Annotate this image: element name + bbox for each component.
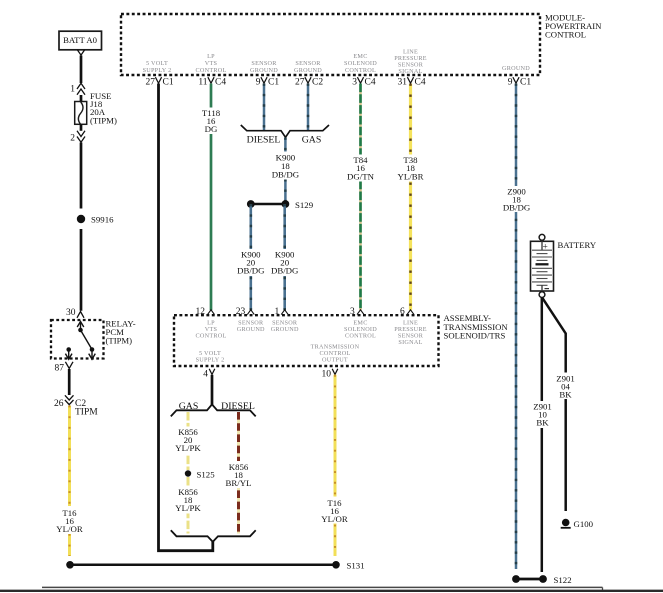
svg-text:C1: C1 bbox=[268, 78, 279, 88]
svg-text:YL/OR: YL/OR bbox=[321, 514, 348, 524]
page frame line upper bbox=[42, 587, 603, 590]
splice S129 bbox=[247, 200, 314, 210]
svg-text:DB/DG: DB/DG bbox=[271, 266, 299, 276]
pin 11 C4 (LP VTS CONTROL) of PCM bbox=[196, 53, 227, 88]
label MODULE-POWERTRAIN CONTROL bbox=[545, 13, 602, 40]
svg-text:11: 11 bbox=[198, 78, 207, 88]
splice S122 bbox=[512, 575, 571, 585]
svg-text:GROUND: GROUND bbox=[250, 67, 278, 74]
svg-text:+: + bbox=[543, 243, 548, 253]
ground G100 bbox=[561, 519, 594, 529]
svg-text:CONTROL: CONTROL bbox=[545, 30, 586, 40]
TRS pin 1 (SENSOR GROUND) bbox=[271, 307, 299, 333]
svg-text:9: 9 bbox=[508, 78, 513, 88]
svg-text:DB/DG: DB/DG bbox=[272, 170, 300, 180]
svg-text:SIGNAL: SIGNAL bbox=[398, 68, 422, 75]
svg-text:26: 26 bbox=[54, 399, 64, 409]
svg-text:GROUND: GROUND bbox=[271, 326, 299, 333]
svg-text:GROUND: GROUND bbox=[237, 326, 265, 333]
svg-text:1: 1 bbox=[274, 307, 279, 317]
wire K856 18 YL/PK (GAS, lower) bbox=[175, 477, 202, 534]
svg-text:LP: LP bbox=[207, 53, 215, 60]
pin 31 C4 (LINE PRESSURE SENSOR SIGNAL) of PCM bbox=[394, 49, 427, 88]
pin 9 C1 (GROUND) of PCM bbox=[502, 65, 531, 88]
wire T118 16 DG (PCM 11 C4 to TRS pin 12) bbox=[199, 84, 223, 311]
svg-text:DG: DG bbox=[205, 124, 218, 134]
TRS pin 23 (SENSOR GROUND) bbox=[236, 307, 265, 333]
svg-text:SENSOR: SENSOR bbox=[295, 60, 321, 67]
relay label RELAY-PCM (TIPM) bbox=[106, 319, 136, 346]
svg-text:5 VOLT: 5 VOLT bbox=[146, 60, 168, 67]
svg-text:3: 3 bbox=[352, 78, 357, 88]
svg-text:DB/DG: DB/DG bbox=[237, 266, 265, 276]
battery feed box BATT A0 bbox=[59, 31, 102, 55]
svg-text:(TIPM): (TIPM) bbox=[106, 336, 133, 346]
svg-text:OUTPUT: OUTPUT bbox=[322, 357, 348, 364]
TRS pin 12 (LP VTS CONTROL) bbox=[196, 307, 227, 340]
svg-text:GROUND: GROUND bbox=[294, 67, 322, 74]
svg-text:C4: C4 bbox=[215, 78, 226, 88]
svg-text:SIGNAL: SIGNAL bbox=[398, 339, 422, 346]
svg-text:31: 31 bbox=[398, 78, 408, 88]
svg-text:C4: C4 bbox=[415, 78, 426, 88]
svg-text:SOLENOID/TRS: SOLENOID/TRS bbox=[444, 330, 506, 340]
svg-text:CONTROL: CONTROL bbox=[345, 67, 376, 74]
wire relay 87 to connector 26 C2 bbox=[68, 369, 71, 395]
brace split GAS/DIESEL (5 volt supply) bbox=[171, 401, 256, 416]
svg-text:BR/YL: BR/YL bbox=[226, 478, 252, 488]
page frame line lower bbox=[0, 590, 663, 592]
svg-text:GROUND: GROUND bbox=[502, 65, 530, 72]
wire T84 16 DG/TN (PCM 3 C4 to TRS pin 3) bbox=[345, 84, 376, 311]
svg-text:CONTROL: CONTROL bbox=[196, 333, 227, 340]
wire pin1 to fuse bbox=[80, 95, 83, 102]
wire fuse to pin 2 bbox=[80, 124, 83, 131]
svg-text:S9916: S9916 bbox=[91, 215, 114, 225]
svg-text:3: 3 bbox=[350, 307, 355, 317]
wire K900 20 DB/DG (S129 to TRS pin 1) bbox=[271, 204, 299, 310]
TRS pin 4 (5 VOLT SUPPLY 2) bbox=[196, 350, 225, 380]
TRS pin 6 (LINE PRESSURE SENSOR SIGNAL) bbox=[394, 307, 427, 346]
svg-text:C1: C1 bbox=[520, 78, 531, 88]
wire Z901 04 BK (battery to G100) bbox=[542, 298, 579, 511]
svg-text:C4: C4 bbox=[365, 78, 376, 88]
svg-text:87: 87 bbox=[55, 364, 65, 374]
svg-text:DIESEL: DIESEL bbox=[247, 135, 281, 146]
svg-text:CONTROL: CONTROL bbox=[196, 67, 227, 74]
svg-text:10: 10 bbox=[322, 370, 332, 380]
wire T38 18 YL/BR (PCM 31 C4 to TRS pin 6) bbox=[396, 84, 425, 311]
svg-text:CONTROL: CONTROL bbox=[345, 333, 376, 340]
wire Z901 10 BK (battery to S122) bbox=[529, 298, 555, 573]
svg-text:27: 27 bbox=[146, 78, 156, 88]
svg-text:23: 23 bbox=[236, 307, 246, 317]
assembly-transmission solenoid/TRS box (dashed) bbox=[174, 315, 439, 366]
svg-text:GAS: GAS bbox=[302, 135, 322, 146]
svg-text:YL/PK: YL/PK bbox=[175, 443, 201, 453]
svg-text:DIESEL: DIESEL bbox=[221, 401, 255, 412]
relay-PCM (TIPM) box bbox=[51, 320, 104, 359]
svg-text:S125: S125 bbox=[197, 470, 216, 480]
svg-text:BATT A0: BATT A0 bbox=[63, 35, 98, 45]
svg-text:VTS: VTS bbox=[205, 60, 218, 67]
wire K900 18 DB/DG (brace to S129) bbox=[271, 138, 300, 205]
svg-text:(TIPM): (TIPM) bbox=[90, 116, 117, 126]
connector pin 1 of fuse bbox=[70, 83, 85, 94]
wire pin 2 to relay pin 30 bbox=[80, 143, 83, 311]
svg-text:GAS: GAS bbox=[179, 401, 199, 412]
relay internal switch bbox=[65, 322, 95, 360]
svg-text:27: 27 bbox=[295, 78, 305, 88]
brace merge DIESEL/GAS (sensor ground) bbox=[241, 125, 329, 146]
svg-text:SUPPLY 2: SUPPLY 2 bbox=[196, 357, 225, 364]
splice bus S131 bbox=[66, 561, 364, 571]
svg-text:DB/DG: DB/DG bbox=[503, 203, 531, 213]
svg-text:S122: S122 bbox=[554, 575, 572, 585]
pin 9 C1 (SENSOR GROUND) of PCM bbox=[250, 60, 279, 88]
connector 26 C2 TIPM bbox=[54, 395, 98, 417]
svg-text:S131: S131 bbox=[347, 561, 365, 571]
splice S125 bbox=[185, 470, 215, 480]
svg-text:9: 9 bbox=[256, 78, 261, 88]
svg-text:2: 2 bbox=[70, 134, 75, 144]
connector pin 2 of fuse bbox=[70, 131, 85, 144]
svg-text:SENSOR: SENSOR bbox=[251, 60, 277, 67]
pin 30 of relay bbox=[66, 308, 84, 318]
svg-text:BK: BK bbox=[536, 418, 549, 428]
TRS pin 10 (TRANSMISSION CONTROL OUTPUT) bbox=[311, 344, 360, 380]
svg-text:12: 12 bbox=[196, 307, 206, 317]
svg-text:4: 4 bbox=[203, 370, 208, 380]
wire TRS pin 4 to split brace bbox=[211, 375, 214, 405]
wire Z900 18 DB/DG (PCM ground to S122) bbox=[502, 84, 531, 570]
svg-text:YL/BR: YL/BR bbox=[398, 171, 424, 181]
svg-text:6: 6 bbox=[400, 307, 405, 317]
svg-text:YL/PK: YL/PK bbox=[175, 503, 201, 513]
wire T16 16 YL/OR (left, C2 to S131) bbox=[54, 406, 85, 557]
svg-text:SOLENOID: SOLENOID bbox=[344, 60, 377, 67]
pin 27 C1 (5 VOLT SUPPLY 2) of PCM bbox=[143, 60, 174, 88]
pin 3 C4 (EMC SOLENOID CONTROL) of PCM bbox=[344, 53, 377, 88]
svg-text:C2: C2 bbox=[312, 78, 323, 88]
svg-text:DG/TN: DG/TN bbox=[347, 171, 375, 181]
svg-text:BK: BK bbox=[559, 390, 572, 400]
wire T16 16 YL/OR (TRS pin 10 to S131) bbox=[320, 375, 349, 556]
wire 5 volt supply trunk (PCM 27 C1 to lower brace) bbox=[159, 84, 213, 551]
battery symbol bbox=[531, 234, 597, 297]
svg-text:30: 30 bbox=[66, 308, 76, 318]
label ASSEMBLY-TRANSMISSION SOLENOID/TRS bbox=[444, 313, 509, 340]
wire K856 18 BR/YL (DIESEL) bbox=[225, 412, 252, 534]
svg-text:1: 1 bbox=[70, 85, 75, 95]
svg-text:TIPM: TIPM bbox=[75, 408, 98, 418]
svg-text:SUPPLY 2: SUPPLY 2 bbox=[143, 67, 172, 74]
splice S9916 bbox=[77, 215, 114, 225]
wire BATT A0 to fuse pin 1 bbox=[80, 56, 83, 84]
fuse J18 20A (TIPM) bbox=[75, 91, 117, 126]
module-powertrain control box (dashed) bbox=[121, 14, 540, 75]
svg-text:C1: C1 bbox=[163, 78, 174, 88]
TRS pin 3 (EMC SOLENOID CONTROL) bbox=[344, 307, 377, 340]
wire DB/DG from PCM 27 C2 to brace bbox=[307, 84, 310, 131]
wire K856 20 YL/PK (GAS, upper) bbox=[175, 412, 202, 470]
pin 27 C2 (SENSOR GROUND) of PCM bbox=[294, 60, 323, 88]
svg-text:BATTERY: BATTERY bbox=[558, 240, 597, 250]
wire DB/DG from PCM 9 C1 to brace bbox=[263, 84, 266, 131]
pin 87 of relay bbox=[55, 362, 74, 374]
svg-text:EMC: EMC bbox=[353, 53, 367, 60]
svg-text:G100: G100 bbox=[574, 519, 594, 529]
svg-text:S129: S129 bbox=[295, 200, 314, 210]
svg-text:YL/OR: YL/OR bbox=[56, 524, 83, 534]
brace merge below GAS/DIESEL bbox=[171, 530, 256, 542]
wire K900 20 DB/DG (S129 to TRS pin 23) bbox=[237, 204, 265, 310]
